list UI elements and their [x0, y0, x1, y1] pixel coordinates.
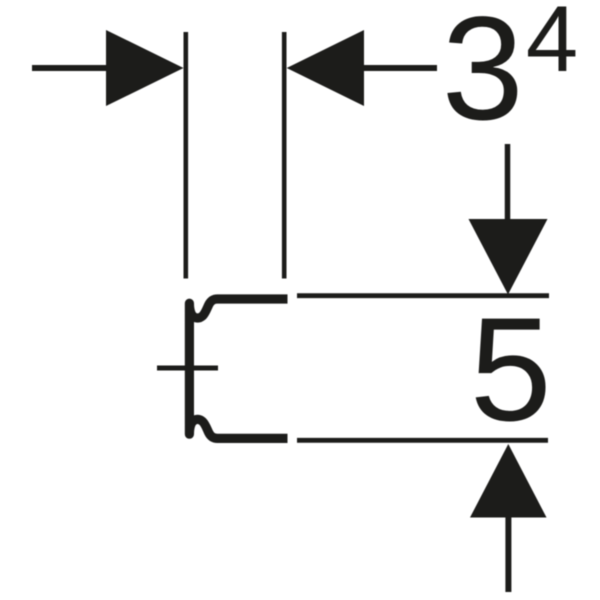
svg-text:5: 5 — [470, 288, 552, 452]
svg-text:3: 3 — [442, 0, 524, 151]
svg-text:4: 4 — [526, 0, 578, 91]
